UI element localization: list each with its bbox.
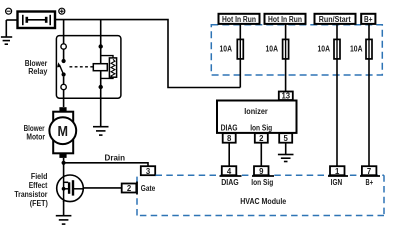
svg-text:Run/Start: Run/Start: [319, 15, 351, 24]
junction node (drain): [62, 161, 66, 165]
svg-text:9: 9: [259, 167, 264, 176]
pin box 2 boundary bar (gate): [136, 182, 138, 195]
pin box 4 boundary bar: [220, 175, 242, 177]
svg-text:Ionizer: Ionizer: [244, 107, 268, 116]
svg-text:Hot In Run: Hot In Run: [222, 15, 256, 24]
svg-text:Transistor: Transistor: [14, 190, 47, 199]
battery B1: [18, 12, 56, 29]
wire fuse 1 column: [239, 24, 241, 88]
svg-text:3: 3: [146, 167, 151, 176]
pin box 4: [222, 166, 237, 175]
transistor Q1 (FET): [57, 175, 84, 202]
wire fuse 3 column: [336, 24, 338, 166]
svg-text:5: 5: [284, 134, 289, 143]
wire fuse 4 column: [368, 24, 370, 166]
fuse F2 10A: [283, 39, 289, 59]
wire FET source to ground: [63, 201, 65, 215]
svg-text:10A: 10A: [318, 44, 331, 53]
pin box 2 (gate): [122, 184, 137, 193]
svg-text:B+: B+: [364, 15, 373, 24]
svg-text:Relay: Relay: [28, 67, 48, 76]
connector label Hot In Run (2): [265, 14, 306, 24]
wire fuse 2 column: [285, 24, 287, 92]
svg-text:2: 2: [127, 184, 132, 193]
relay box: [56, 36, 121, 99]
svg-text:(FET): (FET): [30, 199, 48, 208]
fuse block dashed box: [211, 25, 382, 75]
svg-text:Field: Field: [31, 172, 48, 181]
svg-text:Ion Sig: Ion Sig: [250, 124, 272, 133]
wire pin 5 to ground: [285, 143, 287, 154]
fuse F1 10A: [237, 39, 243, 59]
wire battery negative to ground: [6, 19, 17, 21]
connector label Hot In Run (1): [219, 14, 260, 24]
svg-text:DIAG: DIAG: [221, 124, 238, 133]
svg-text:10A: 10A: [220, 44, 233, 53]
svg-text:DIAG: DIAG: [221, 178, 239, 187]
ground G3 (FET): [56, 216, 72, 224]
blower motor M1: [49, 107, 76, 158]
svg-text:2: 2: [259, 134, 264, 143]
svg-text:8: 8: [227, 134, 232, 143]
ionizer module U1: [217, 101, 297, 133]
connector label B+: [361, 14, 375, 24]
pin box 3: [141, 166, 155, 175]
svg-text:10A: 10A: [266, 44, 279, 53]
pin box 13: [279, 92, 293, 101]
svg-text:10A: 10A: [350, 44, 363, 53]
wire drain to pin 3: [64, 163, 148, 166]
svg-text:Hot In Run: Hot In Run: [268, 15, 302, 24]
pin box 7 boundary bar: [360, 175, 380, 177]
fuse F4 10A: [366, 39, 372, 59]
ground G2 (relay coil): [93, 127, 109, 135]
svg-text:7: 7: [367, 167, 371, 176]
svg-text:HVAC Module: HVAC Module: [240, 197, 287, 206]
relay switch contacts: [57, 44, 66, 90]
connector label Run/Start: [315, 14, 356, 24]
svg-text:Ion Sig: Ion Sig: [251, 178, 273, 187]
ground G4 (ionizer): [278, 155, 294, 162]
svg-text:13: 13: [281, 92, 290, 101]
pin box 1: [330, 166, 345, 175]
wire pin 8 to pin 4: [228, 143, 230, 167]
fuse F3 10A: [334, 39, 340, 59]
svg-text:B+: B+: [366, 178, 374, 187]
wire to relay coil: [100, 20, 102, 54]
pin box 5: [279, 133, 292, 143]
svg-text:Gate: Gate: [141, 184, 156, 193]
wire pin 2 to pin 9: [260, 143, 262, 167]
svg-text:Effect: Effect: [29, 181, 48, 190]
battery negative terminal: [6, 8, 12, 14]
pin box 8: [223, 133, 236, 143]
wire gate to pin 2: [83, 187, 122, 189]
svg-text:Motor: Motor: [26, 133, 45, 142]
relay coil: [93, 44, 116, 89]
svg-text:IGN: IGN: [331, 178, 343, 187]
pin box 9: [254, 166, 269, 175]
ground G1 (battery): [1, 20, 12, 44]
wire to relay switch: [63, 20, 65, 44]
HVAC module dashed boundary: [137, 175, 384, 215]
wire coil to ground: [100, 89, 102, 126]
svg-text:M: M: [58, 124, 69, 140]
wire motor to FET drain: [63, 158, 65, 176]
pin box 2 (ionizer): [255, 133, 268, 143]
wire relay switch to motor: [63, 90, 65, 107]
svg-text:4: 4: [227, 167, 232, 176]
pin box 1 boundary bar: [328, 175, 348, 177]
relay coil linkage (dashed): [70, 66, 94, 68]
svg-text:1: 1: [335, 167, 340, 176]
pin box 9 boundary bar: [252, 175, 274, 177]
battery positive terminal: [59, 8, 65, 14]
wire main B+ feed: [55, 20, 240, 88]
svg-text:Drain: Drain: [105, 153, 126, 162]
pin box 7: [362, 166, 377, 175]
